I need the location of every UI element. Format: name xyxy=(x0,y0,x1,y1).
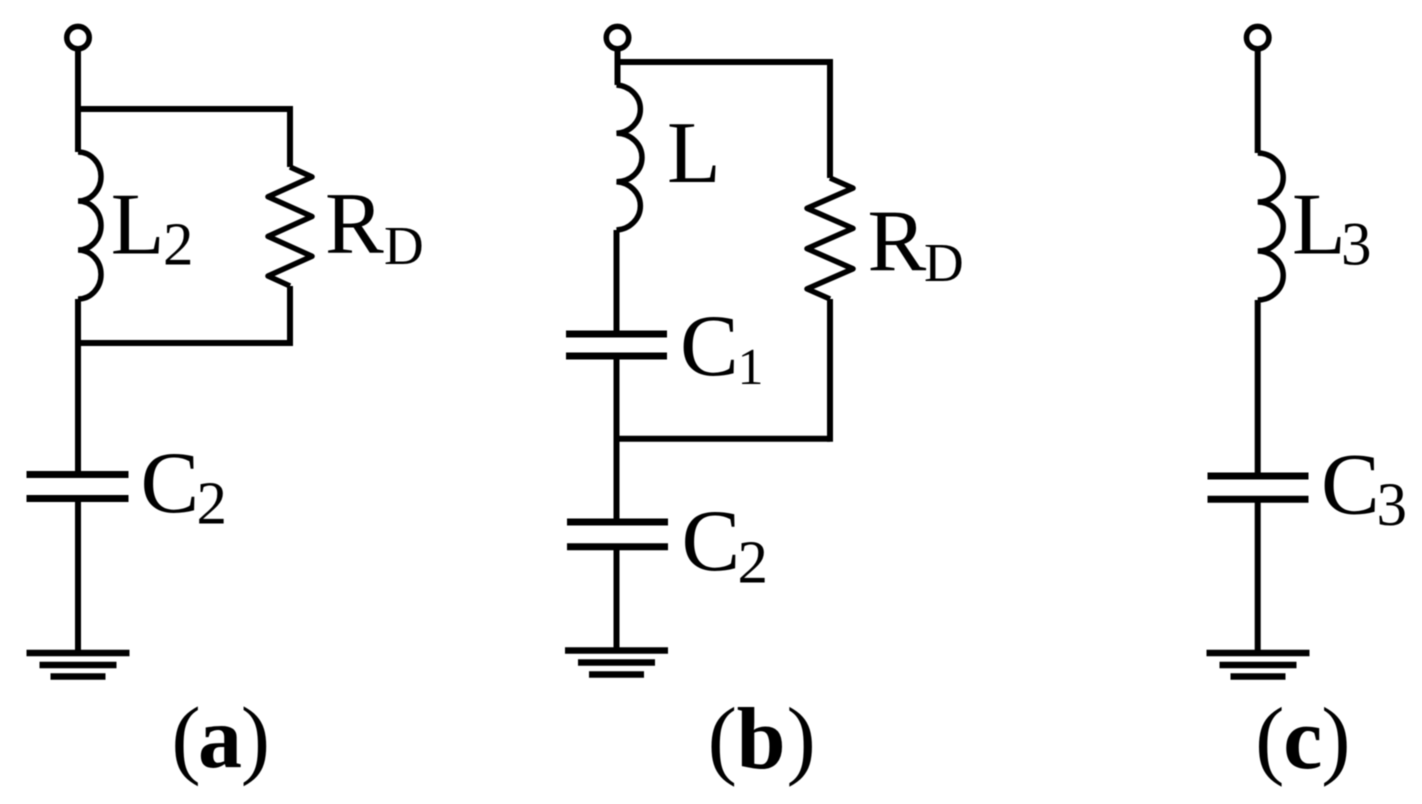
svg-text:2: 2 xyxy=(163,212,194,279)
bottom rail node (a) xyxy=(75,340,290,346)
svg-text:1: 1 xyxy=(738,339,764,396)
inductor L2 (a) xyxy=(78,152,101,299)
svg-text:L: L xyxy=(1292,177,1346,274)
svg-text:R: R xyxy=(868,194,927,291)
capacitor C2 bottom plate (a) xyxy=(27,495,129,502)
wire right branch lower (b) xyxy=(827,299,833,442)
svg-text:): ) xyxy=(1321,691,1350,788)
svg-text:D: D xyxy=(384,215,424,276)
ground (c) xyxy=(1207,653,1310,677)
svg-text:c: c xyxy=(1283,691,1322,788)
wire right branch lower (a) xyxy=(287,286,293,346)
svg-text:(: ( xyxy=(171,691,200,788)
svg-text:C: C xyxy=(141,435,200,532)
capacitor C2 bottom plate (b) xyxy=(567,543,668,550)
capacitor C1 top plate (b) xyxy=(566,331,667,338)
wire terminal to top rail (b) xyxy=(615,48,621,85)
svg-text:L: L xyxy=(111,176,165,273)
capacitor C2 top plate (b) xyxy=(567,519,668,526)
svg-text:(: ( xyxy=(708,691,737,788)
bottom rail node (b) xyxy=(615,436,831,442)
terminal (a) xyxy=(67,26,89,48)
capacitor C2 top plate (a) xyxy=(27,471,129,478)
wire capacitor C1 to capacitor C2 (b) xyxy=(614,356,620,522)
inductor L (b) xyxy=(617,85,642,230)
wire bottom rail to capacitor (a) xyxy=(75,343,81,475)
wire inductor to bottom rail (a) xyxy=(75,299,81,343)
svg-text:2: 2 xyxy=(197,471,228,538)
wire capacitor to ground (a) xyxy=(75,499,81,654)
wire terminal to top rail (a) xyxy=(75,48,81,112)
top rail node (b) xyxy=(615,59,831,65)
svg-text:a: a xyxy=(198,690,242,787)
wire inductor to capacitor (c) xyxy=(1255,300,1261,476)
wire right branch upper (a) xyxy=(287,106,293,167)
wire terminal to inductor (c) xyxy=(1255,48,1261,153)
wire inductor to capacitor C1 (b) xyxy=(614,230,620,334)
capacitor C3 bottom plate (c) xyxy=(1208,496,1309,503)
ground (b) xyxy=(565,651,668,675)
svg-text:C: C xyxy=(1321,437,1380,534)
svg-text:L: L xyxy=(667,105,721,202)
resistor RD (a) xyxy=(268,167,312,286)
wire capacitor C2 to ground (b) xyxy=(614,547,620,651)
inductor L3 (c) xyxy=(1258,153,1284,300)
svg-text:3: 3 xyxy=(1377,472,1408,539)
resistor RD (b) xyxy=(807,178,853,299)
svg-text:): ) xyxy=(787,691,816,788)
svg-text:3: 3 xyxy=(1341,212,1372,279)
svg-text:): ) xyxy=(241,691,270,788)
wire right branch upper (b) xyxy=(827,59,833,178)
svg-text:(: ( xyxy=(1255,691,1284,788)
terminal (c) xyxy=(1247,26,1269,48)
capacitor C3 top plate (c) xyxy=(1208,473,1309,480)
svg-text:C: C xyxy=(680,298,739,395)
svg-text:R: R xyxy=(325,176,384,273)
svg-text:b: b xyxy=(737,691,786,788)
capacitor C1 bottom plate (b) xyxy=(566,353,667,360)
svg-text:D: D xyxy=(924,232,964,293)
wire top rail to inductor (a) xyxy=(75,109,81,152)
terminal (b) xyxy=(606,26,628,48)
wire capacitor to ground (c) xyxy=(1255,499,1261,653)
ground (a) xyxy=(27,653,130,677)
top rail node (a) xyxy=(75,106,290,112)
svg-text:C: C xyxy=(682,493,741,590)
svg-text:2: 2 xyxy=(738,530,769,597)
